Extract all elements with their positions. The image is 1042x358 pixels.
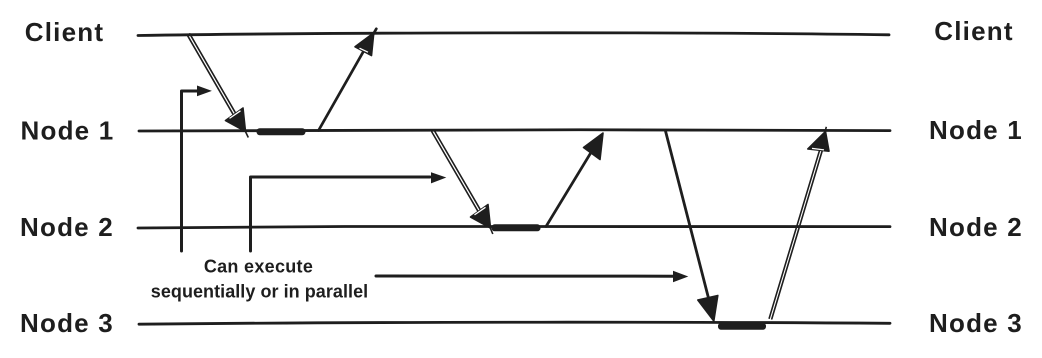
svg-text:Can execute: Can execute [204, 257, 313, 277]
request arrow Node 1 to Node 2 (double line shaft) [432, 131, 487, 223]
lifeline Node 3 [139, 322, 890, 324]
arrowhead at Node 2 (request 2) [471, 205, 493, 235]
svg-text:Node 3: Node 3 [929, 308, 1023, 338]
return arrow Node 2 to Node 1 (shaft) [546, 136, 601, 227]
arrowhead at Node 1 (return 3) [808, 127, 829, 151]
svg-text:Node 1: Node 1 [21, 116, 115, 146]
svg-text:Client: Client [25, 17, 104, 47]
arrowhead elbow B [431, 172, 446, 183]
lifeline Client [138, 33, 889, 36]
elbow annotation arrow A (to request 1) [182, 91, 198, 251]
svg-text:Node 3: Node 3 [20, 308, 114, 338]
arrowhead at Client (return 1) [355, 33, 374, 56]
arrowhead arrow C [673, 271, 688, 283]
arrowhead at Node 1 (return 2) [584, 133, 604, 160]
return arrow Node 1 to Client (shaft) [319, 29, 377, 131]
svg-text:Node 2: Node 2 [929, 212, 1023, 242]
return arrow Node 3 to Node 1 (double line shaft) [769, 146, 823, 319]
request arrow Client to Node 1 (double line shaft) [187, 34, 242, 125]
activation bar on Node 2 [492, 224, 541, 231]
arrowhead elbow A [197, 86, 212, 97]
svg-text:Client: Client [934, 16, 1013, 46]
arrowhead at Node 1 (request 1) [226, 108, 249, 138]
arrowhead at Node 3 (request 3) [698, 296, 718, 322]
annotation arrow C (to request 3) [376, 275, 674, 278]
lifeline Node 2 [138, 226, 890, 228]
elbow annotation arrow B (to request 2) [251, 177, 431, 251]
activation bar on Node 1 [257, 128, 306, 135]
svg-text:Node 2: Node 2 [20, 212, 114, 242]
svg-text:Node 1: Node 1 [929, 115, 1023, 145]
lifeline Node 1 [139, 130, 890, 131]
svg-text:sequentially or in parallel: sequentially or in parallel [151, 282, 368, 302]
activation bar on Node 3 [718, 323, 766, 330]
request arrow Node 1 to Node 3 (shaft) [666, 131, 710, 300]
